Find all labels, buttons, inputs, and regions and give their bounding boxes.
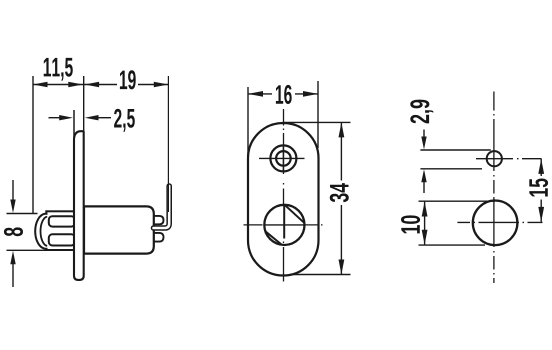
extension line right of 19: [167, 76, 169, 212]
arrow 15 bottom (points down): [538, 207, 544, 222]
vertical centerline of flange: [283, 109, 285, 282]
lower hole chord upper-right: [285, 205, 304, 223]
extension line 2,5 left (plate front face): [73, 110, 75, 141]
arrow 19 left: [85, 82, 100, 88]
dimension 2,5 line left part: [49, 117, 63, 119]
arrow 2,5 right (points left at plate face): [85, 115, 99, 120]
lower hole chord lower-left: [265, 231, 281, 244]
small hole circle 2,9: [487, 151, 502, 166]
extension line 10 bottom: [419, 244, 486, 246]
plunger slot upper: [49, 216, 75, 226]
label 16: [276, 85, 292, 104]
arrow 8 upper (points down): [12, 180, 14, 202]
dimension 8 upper extension line: [7, 213, 38, 215]
terminal wire outer: [154, 186, 170, 228]
dimension line 10: [424, 202, 426, 245]
arrow 19 right: [154, 82, 169, 88]
dimension 8 lower extension line: [7, 249, 59, 251]
arrow 15 top (points up): [538, 159, 544, 174]
arrow 34 bottom: [339, 260, 345, 275]
label 11,5: [44, 58, 73, 81]
big hole horizontal centerline: [457, 221, 542, 223]
terminal tab lower: [153, 233, 164, 242]
arrow 10 top: [422, 202, 428, 217]
arrow 2,9 lower (points up): [423, 179, 425, 193]
dimension line 11,5 / 19: [33, 84, 168, 86]
arrow 2,5 left (points right at plate face): [59, 115, 73, 120]
arrow 34 top: [339, 122, 345, 137]
small hole horizontal centerline: [476, 158, 542, 160]
extension line 34 top: [284, 121, 351, 123]
mounting plate (edge-on): [74, 131, 84, 280]
label 2,5: [114, 109, 135, 132]
arrow 10 bottom: [422, 230, 428, 245]
plunger cap inner contour: [41, 217, 48, 246]
upper hole crosshair horizontal: [259, 157, 305, 159]
arrow 16 right: [303, 91, 318, 97]
label 15 (rotated): [529, 179, 548, 197]
extension line 2,9 top: [420, 149, 490, 151]
plunger slot lower: [49, 234, 75, 245]
lower hole horizontal centerline inside: [264, 224, 304, 226]
label 34 (rotated): [330, 183, 349, 202]
extension line 16 left: [247, 87, 249, 158]
arrow 8 lower (points up): [12, 262, 14, 287]
label 8 (rotated): [4, 227, 23, 236]
lower hole circle: [264, 205, 304, 245]
dimension line 15: [540, 159, 542, 222]
extension line 2,9 bottom: [420, 168, 482, 170]
dimension line 16: [248, 93, 318, 95]
vertical centerline: [493, 92, 495, 284]
terminal wire inner: [154, 186, 170, 228]
switch body: [84, 206, 154, 253]
extension line 10 top: [419, 200, 496, 202]
dimension line 34: [340, 122, 342, 274]
label 19: [120, 70, 136, 89]
oval flange outline: [248, 123, 319, 276]
lower hole horizontal centerline: [244, 224, 325, 226]
extension line 16 right: [317, 81, 319, 148]
arrow 2,9 upper (points down): [423, 130, 425, 141]
lower hole vertical center edge: [283, 205, 285, 239]
extension line left of 11,5: [32, 76, 34, 214]
arrow 11,5 left: [33, 82, 48, 88]
extension line 34 bottom: [290, 274, 351, 276]
plunger rubber cap: [35, 214, 47, 249]
extension line between 11,5 and 19: [83, 76, 85, 133]
upper hole outer circle: [270, 145, 296, 171]
upper hole inner circle: [276, 151, 291, 166]
plunger tube: [46, 211, 75, 250]
arrow 16 left: [248, 91, 263, 97]
terminal tab upper: [153, 216, 164, 224]
dimension 2,5 line right part: [96, 117, 111, 119]
label 2,9 (rotated): [410, 100, 433, 124]
label 10 (rotated): [401, 215, 420, 233]
upper hole crosshair inside: [270, 145, 296, 171]
big hole circle 10: [473, 201, 518, 246]
arrow 11,5 right: [68, 82, 83, 88]
